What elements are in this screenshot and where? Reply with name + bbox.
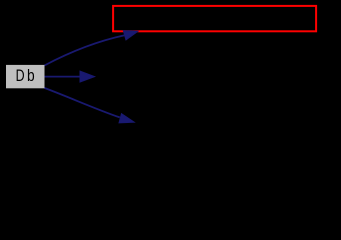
edge Db to middle box (horizontal wire): [45, 76, 82, 78]
arrowhead top: [123, 31, 138, 41]
svg-text:b: b: [27, 67, 35, 86]
edge Db to top box (curved wire): [44, 35, 124, 65]
node Db label: [16, 67, 35, 86]
node Db (grey box): [6, 65, 45, 88]
arrowhead bottom: [119, 114, 135, 124]
red truncated node box: [113, 6, 316, 31]
edge Db to bottom box (curved wire): [44, 88, 120, 118]
arrowhead middle: [80, 71, 95, 82]
svg-text:D: D: [16, 67, 25, 85]
